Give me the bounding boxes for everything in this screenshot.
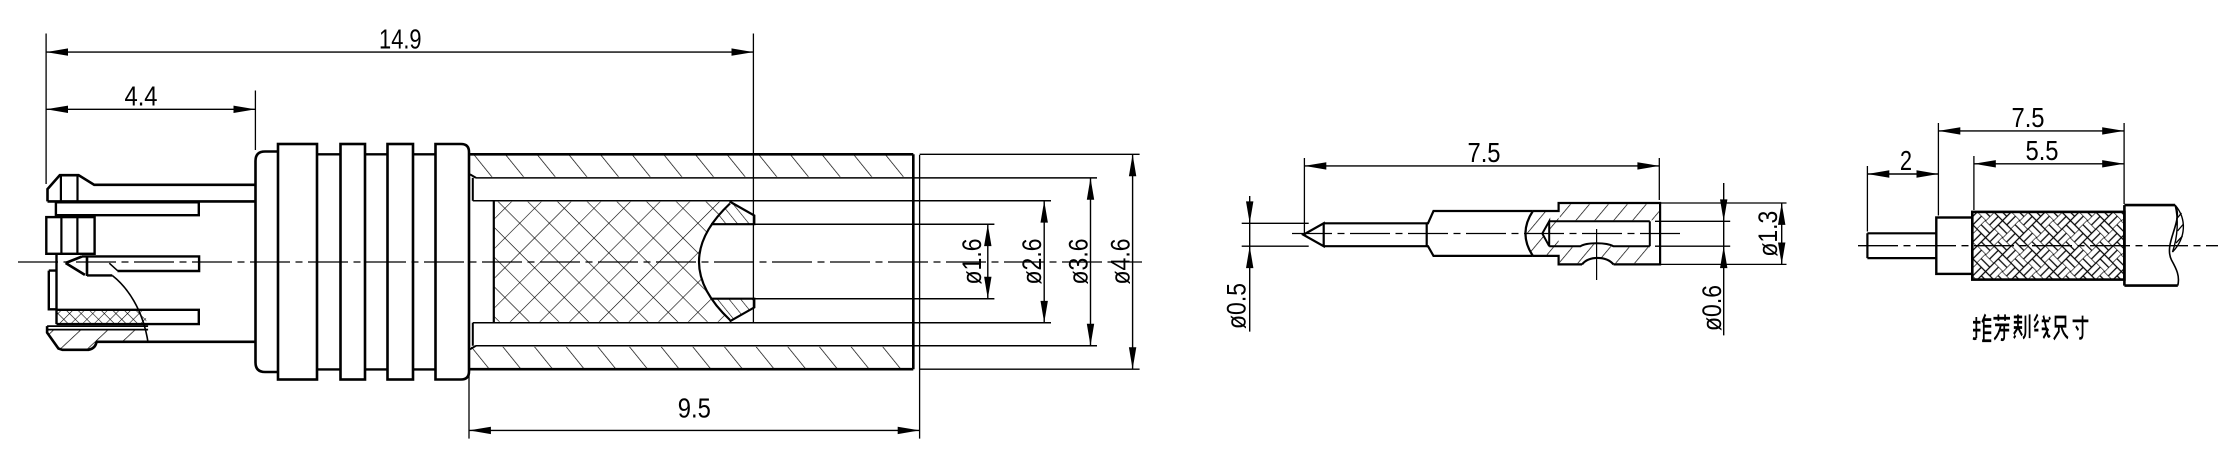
socket arc face <box>699 204 730 321</box>
barrel wall hatch bottom <box>470 347 912 368</box>
dimple axis tick <box>1596 229 1598 280</box>
centerline middle view <box>1292 233 1685 235</box>
crimp bore top line <box>1549 220 1650 222</box>
lower hook block <box>47 326 96 350</box>
svg-text:2: 2 <box>1900 145 1912 176</box>
contact bend arc <box>112 276 148 343</box>
dimension dia 1.3 <box>1781 203 1783 264</box>
body rib 2 <box>341 144 366 380</box>
jacket break S-curve <box>2169 205 2178 286</box>
lower insulator bar crosshatch <box>57 310 147 324</box>
cable braid <box>1972 212 2124 280</box>
svg-text:14.9: 14.9 <box>379 24 421 55</box>
pin tip cone <box>1303 223 1323 246</box>
dimension 7.5 right <box>1938 130 2124 132</box>
socket finger bottom <box>711 299 754 322</box>
svg-text:7.5: 7.5 <box>1467 136 1500 168</box>
body groove lines top <box>317 153 436 155</box>
barrel end face <box>912 154 915 369</box>
barrel bore lines (dia 3.6) <box>476 178 1097 346</box>
barrel wall hatch top <box>470 156 912 177</box>
svg-text:9.5: 9.5 <box>678 392 711 424</box>
crimp wall hatch bottom <box>1560 244 1649 263</box>
jacket break crescent <box>2173 205 2184 252</box>
char tui <box>1973 314 1991 340</box>
svg-text:ø0.5: ø0.5 <box>1222 283 1252 329</box>
dimension 2 <box>1867 173 1938 175</box>
lower leg bottom edge <box>96 340 256 343</box>
socket bore lines (dia 1.6) <box>711 224 994 299</box>
lower hook hatch <box>47 330 148 349</box>
dimension 4.4 <box>46 108 255 110</box>
cable jacket <box>2124 205 2177 286</box>
barrel bore entry chamfer <box>470 174 476 349</box>
pin ball arc <box>1525 211 1532 256</box>
contact bend inner edge <box>109 263 117 271</box>
dimension dia 0.5 <box>1249 196 1251 332</box>
crimp bore end face <box>1649 221 1651 246</box>
barrel inner step <box>472 178 474 346</box>
top leg hook <box>48 175 256 201</box>
dimension dia 4.6 <box>1132 154 1134 369</box>
dimension 14.9 <box>46 51 753 53</box>
crimp bore bottom line with dimple <box>1549 243 1650 246</box>
extension lines for diameters <box>920 154 1140 369</box>
top leg hook inner lines <box>61 175 78 201</box>
insulator sleeve lines (dia 2.6) <box>473 201 1051 323</box>
center pin bar <box>82 256 199 275</box>
upper fork block <box>46 217 94 254</box>
crimp outer bottom dimple <box>1582 258 1614 264</box>
crescent hatch lines <box>2176 213 2184 243</box>
svg-text:5.5: 5.5 <box>2025 134 2058 166</box>
svg-text:4.4: 4.4 <box>124 79 157 111</box>
crimp bore entry cone <box>1542 221 1549 246</box>
body groove lines bottom <box>317 368 436 370</box>
centerline left view <box>18 261 1142 263</box>
dimension 9.5 <box>469 429 920 431</box>
insulator block edges <box>493 201 495 323</box>
dimension dia 0.6 <box>1723 183 1725 335</box>
upper contact bar <box>56 202 199 215</box>
cable center conductor <box>1867 233 1936 258</box>
cable dielectric <box>1936 218 1972 274</box>
connector body collar <box>256 152 279 373</box>
lower contact bar <box>57 310 199 324</box>
crimp wall hatch top <box>1560 204 1659 220</box>
svg-text:ø0.6: ø0.6 <box>1697 285 1727 331</box>
body rib 4 <box>436 144 470 380</box>
insulator crosshatch block <box>494 202 730 322</box>
barrel outer shell <box>469 154 913 369</box>
pin mid barrel <box>1427 211 1533 256</box>
svg-text:ø1.3: ø1.3 <box>1753 211 1783 257</box>
caption: recommended stripping dimensions (CJK strokes) <box>1973 314 2088 340</box>
dimension 7.5 middle <box>1304 165 1659 167</box>
pin rod <box>1324 223 1427 246</box>
transition wedge hatch <box>1527 212 1559 255</box>
svg-text:7.5: 7.5 <box>2011 101 2044 133</box>
centerline right view <box>1858 245 2218 247</box>
center pin tip <box>66 256 87 276</box>
body rib 3 <box>388 144 414 380</box>
body rib 1 <box>278 144 317 380</box>
dimension dia 1.6 <box>987 224 989 299</box>
socket finger top <box>711 202 754 225</box>
lower leg lines <box>47 326 148 330</box>
crimp barrel outline <box>1533 203 1660 264</box>
dimension 5.5 <box>1974 163 2124 165</box>
dimension dia 2.6 <box>1043 201 1045 323</box>
lower fork wall <box>49 254 57 324</box>
upper fork block inner lines <box>61 217 77 254</box>
dimension dia 3.6 <box>1090 178 1092 346</box>
